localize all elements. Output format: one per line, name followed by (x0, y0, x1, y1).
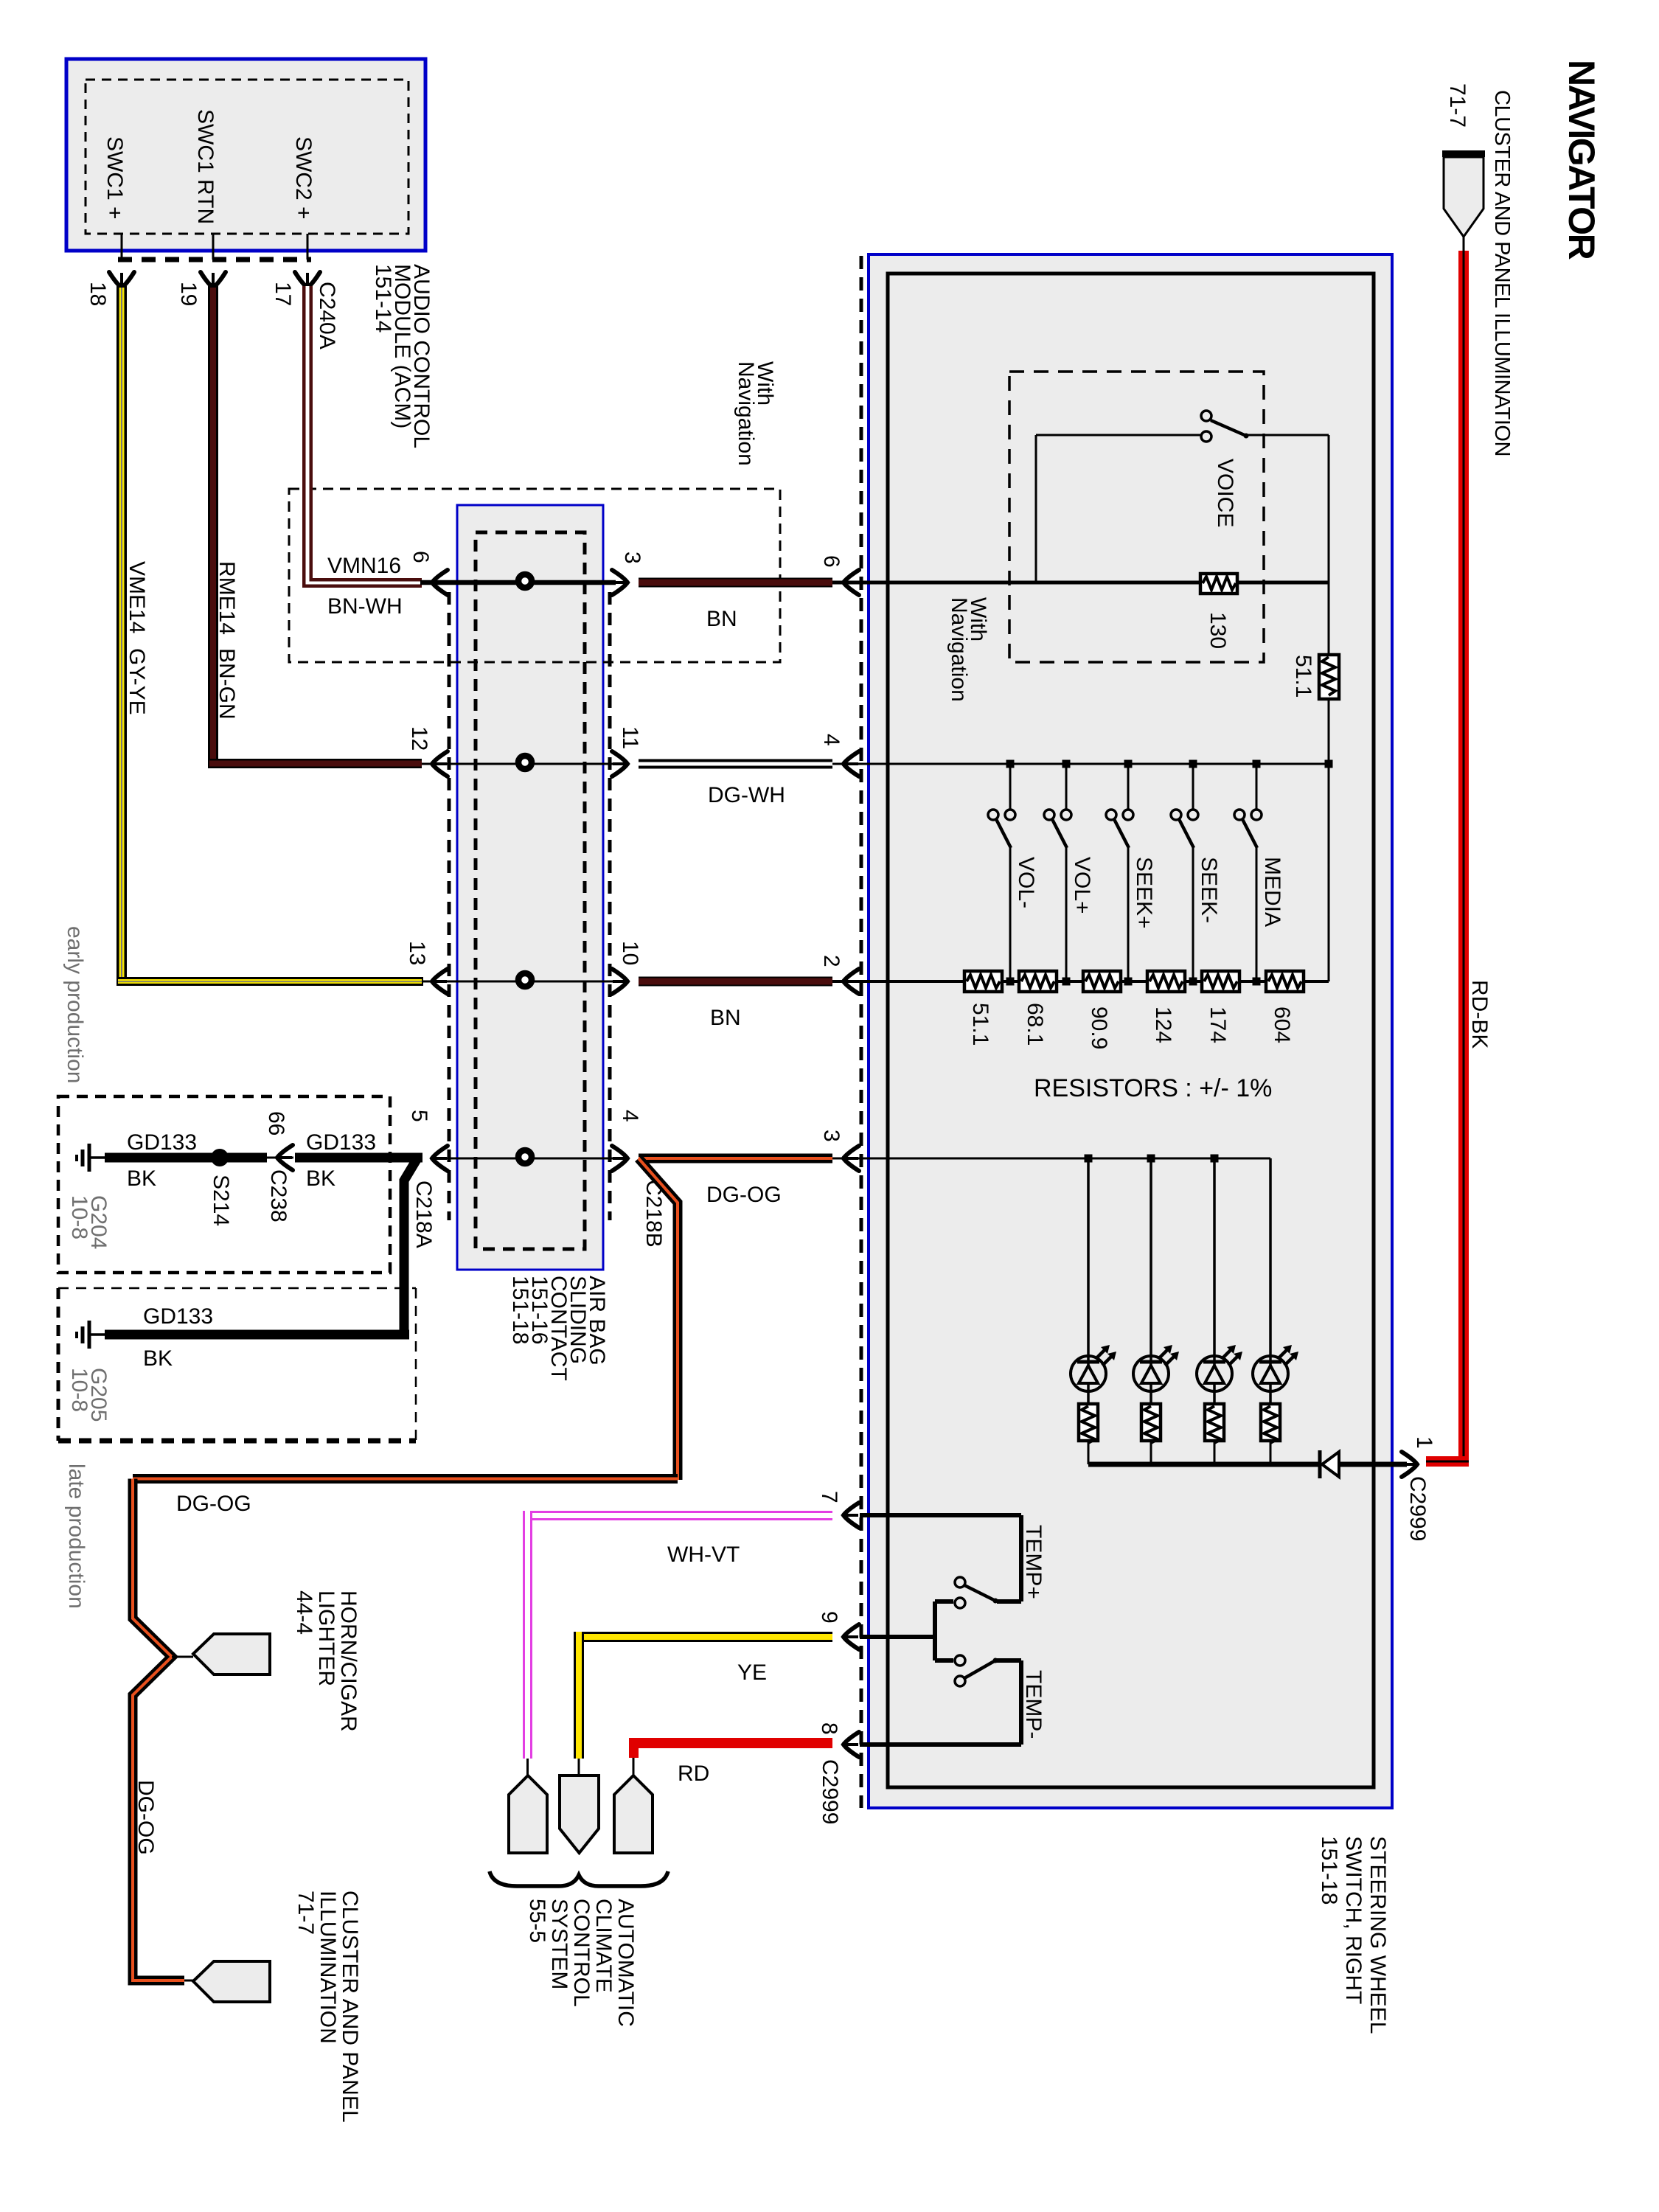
steering wheel switch box (869, 254, 1392, 1808)
svg-text:GD133: GD133 (306, 1130, 376, 1155)
wire GD133 BK (to S214) (105, 1153, 214, 1163)
arrow pin 12 C218A (432, 751, 448, 776)
VOICE branch (1035, 435, 1037, 582)
LED branch junction dots (1085, 1155, 1093, 1163)
arrow pin 10 C218B (612, 969, 627, 994)
ground G204 (77, 1144, 108, 1172)
connector pentagon (cluster illumination feed) (1442, 150, 1485, 251)
connector C218A dashed line (448, 592, 451, 1220)
svg-text:Navigation: Navigation (947, 597, 971, 702)
resistor 124 (1147, 971, 1185, 992)
svg-text:AUTOMATIC: AUTOMATIC (613, 1899, 638, 2027)
svg-text:12: 12 (407, 726, 431, 751)
svg-text:9: 9 (817, 1611, 841, 1624)
diode D1 (1320, 1450, 1339, 1478)
connector pentagon HORN/CIGAR LIGHTER (193, 1634, 270, 1674)
LED 1 branch (1071, 1158, 1116, 1464)
connector arrow pin 18 (109, 272, 134, 288)
svg-text:4: 4 (618, 1110, 642, 1122)
svg-text:SWC1 +: SWC1 + (102, 136, 127, 220)
svg-text:CONTROL: CONTROL (569, 1899, 594, 2007)
svg-text:BN-GN: BN-GN (215, 648, 239, 720)
arrow C2999 pin 3 (844, 1146, 859, 1171)
svg-text:SEEK-: SEEK- (1197, 857, 1221, 923)
svg-text:C240A: C240A (315, 282, 339, 349)
arrow C2999 pin 2 (844, 969, 859, 994)
arrow pin 11 C218B (612, 751, 627, 776)
svg-text:SWITCH, RIGHT: SWITCH, RIGHT (1341, 1836, 1366, 2004)
svg-text:68.1: 68.1 (1023, 1003, 1047, 1046)
svg-text:CLIMATE: CLIMATE (591, 1899, 616, 1993)
svg-text:10: 10 (618, 941, 642, 965)
svg-text:151-14: 151-14 (371, 264, 395, 333)
resistor 90.9 (1083, 971, 1121, 992)
row 2: wire through sliding contact (pin12-pin11) (422, 763, 616, 765)
svg-text:DG-OG: DG-OG (176, 1492, 251, 1516)
svg-text:3: 3 (819, 1130, 844, 1142)
sliding contact ring row3 (518, 973, 532, 987)
wire WH-VT (pin 7) (523, 1511, 832, 1775)
connector pentagon CLUSTER AND PANEL ILLUMINATION (bottom) (193, 1961, 270, 2002)
common wire from pin 9 (860, 1635, 935, 1639)
arrow C2999 pin 6 (844, 570, 859, 595)
wire pin stubs from ACM (121, 234, 123, 260)
wire DG-WH row2 (639, 759, 832, 769)
switch SEEK- (1171, 760, 1198, 986)
TEMP+ wire from pin 7 (860, 1513, 1021, 1517)
resistor 68.1 (1019, 971, 1057, 992)
brace (climate control connectors) (490, 1871, 668, 1886)
svg-text:10-8: 10-8 (67, 1368, 91, 1412)
ground G205 (77, 1321, 108, 1349)
splice S214 (211, 1149, 229, 1166)
svg-text:13: 13 (405, 941, 429, 965)
wire row1 into steering box (832, 581, 1036, 585)
arrow pin 13 C218A (432, 969, 448, 994)
wire S214 to C238 (227, 1153, 267, 1163)
svg-text:151-18: 151-18 (508, 1276, 532, 1344)
switch VOL- (988, 760, 1015, 986)
svg-text:TEMP+: TEMP+ (1021, 1525, 1046, 1599)
wire GD133 BK (C238 to C218A pin 5) (295, 1153, 422, 1163)
row 1: wire through sliding contact (pin6-pin3) (420, 580, 616, 585)
svg-text:SWC1 RTN: SWC1 RTN (193, 109, 218, 224)
svg-text:VOICE: VOICE (1213, 459, 1237, 527)
resistor 174 (1202, 971, 1239, 992)
svg-text:55-5: 55-5 (525, 1899, 549, 1943)
arrow pin 66 C238 (267, 1157, 293, 1159)
svg-text:VOL-: VOL- (1014, 857, 1038, 908)
svg-text:C238: C238 (266, 1169, 291, 1222)
svg-text:51.1: 51.1 (968, 1003, 992, 1046)
row 4: wire through sliding contact (pin5-pin4) (441, 1158, 616, 1160)
LED 4 branch (1253, 1158, 1298, 1464)
svg-text:66: 66 (264, 1111, 288, 1135)
svg-text:17: 17 (271, 282, 295, 306)
wire row3 into steering box (832, 980, 964, 983)
connector C218B dashed line (608, 592, 612, 1220)
With Navigation dashed box (left) (289, 489, 780, 662)
svg-text:VMN16: VMN16 (327, 554, 401, 578)
svg-text:4: 4 (819, 734, 844, 746)
sliding contact ring row1 (518, 574, 532, 588)
LED 2 branch (1133, 1158, 1179, 1464)
resistor 130 (1200, 574, 1237, 594)
resistor chain row (1002, 980, 1019, 983)
svg-text:BN-WH: BN-WH (327, 594, 403, 619)
row 3: wire through sliding contact (pin13-pin10) (423, 981, 616, 983)
svg-text:DG-OG: DG-OG (133, 1780, 158, 1855)
wire DG-OG distribution (late production) (133, 1158, 678, 1980)
With Navigation dashed box (right) (1009, 372, 1264, 662)
svg-text:LIGHTER: LIGHTER (314, 1590, 338, 1686)
svg-text:18: 18 (86, 282, 110, 306)
LED 3 branch (1197, 1158, 1242, 1464)
arrow C2999 pin 9 (844, 1624, 859, 1649)
svg-text:51.1: 51.1 (1291, 655, 1315, 698)
wire VME14 GY-YE (pin 18 to pin 13) (116, 286, 423, 986)
sliding contact ring row4 (518, 1150, 532, 1164)
svg-text:NAVIGATOR: NAVIGATOR (1561, 60, 1602, 260)
svg-text:174: 174 (1206, 1006, 1230, 1043)
svg-text:1: 1 (1412, 1436, 1436, 1449)
wire BN row3 (639, 977, 832, 987)
connector pentagon YE (climate control) (560, 1775, 599, 1853)
svg-text:C2999: C2999 (1405, 1476, 1430, 1541)
svg-text:GD133: GD133 (127, 1130, 197, 1155)
svg-text:WH-VT: WH-VT (667, 1543, 740, 1567)
arrow pin 6 C218A (432, 570, 448, 595)
svg-text:ILLUMINATION: ILLUMINATION (316, 1891, 340, 2044)
svg-text:BN: BN (706, 607, 737, 631)
arrow pin 4 C218B (612, 1146, 627, 1171)
svg-text:late production: late production (64, 1464, 88, 1609)
svg-text:90.9: 90.9 (1087, 1006, 1111, 1049)
arrow pin 3 C218B (612, 570, 627, 595)
ACM box (AUDIO CONTROL MODULE) (66, 59, 425, 251)
ground box G205 (late production) (58, 1288, 416, 1441)
svg-text:604: 604 (1270, 1006, 1294, 1043)
arrow C2999 pin 1 (1402, 1452, 1417, 1477)
wire row2 into steering box (832, 763, 1329, 765)
junction dot (1325, 760, 1333, 768)
svg-text:151-18: 151-18 (1317, 1836, 1341, 1905)
svg-text:DG-OG: DG-OG (706, 1183, 782, 1207)
svg-text:71-7: 71-7 (293, 1891, 318, 1935)
svg-text:SEEK+: SEEK+ (1132, 857, 1156, 929)
wire DG-OG row4 (639, 1154, 832, 1164)
switch TEMP- (955, 1655, 998, 1686)
svg-text:DG-WH: DG-WH (708, 783, 785, 807)
svg-text:19: 19 (176, 282, 201, 306)
wire RD (pin 8) (629, 1738, 832, 1775)
connector arrow pin 19 (201, 272, 226, 288)
svg-text:YE: YE (737, 1660, 767, 1685)
LED return bus (1088, 1462, 1318, 1467)
svg-text:11: 11 (618, 726, 642, 749)
svg-text:GY-YE: GY-YE (125, 648, 149, 715)
svg-text:GD133: GD133 (143, 1304, 213, 1329)
svg-text:SWC2 +: SWC2 + (291, 136, 316, 220)
svg-text:BK: BK (127, 1166, 156, 1191)
svg-text:6: 6 (408, 551, 433, 563)
svg-text:RME14: RME14 (215, 561, 239, 635)
svg-text:C2999: C2999 (818, 1759, 842, 1824)
switch VOICE (1201, 411, 1249, 442)
wire VMN16 BN-WH (pin 17 to pin 6) (302, 286, 422, 588)
svg-text:BK: BK (306, 1166, 335, 1191)
svg-text:7: 7 (817, 1491, 841, 1503)
arrow C2999 pin 8 (844, 1732, 859, 1757)
wire RD-BK (cluster illumination to C2999 pin 1) (1426, 251, 1469, 1467)
AIR BAG SLIDING CONTACT box (457, 505, 603, 1270)
svg-text:S214: S214 (209, 1175, 233, 1226)
wire BN row1 (C218B to C2999 pin6) (639, 578, 832, 588)
svg-text:STEERING WHEEL: STEERING WHEEL (1366, 1836, 1390, 2034)
svg-text:71-7: 71-7 (1445, 83, 1470, 128)
svg-text:3: 3 (620, 552, 644, 564)
svg-text:6: 6 (819, 555, 844, 568)
svg-text:TEMP-: TEMP- (1021, 1670, 1046, 1739)
connector C2999 dashed line (860, 256, 863, 1808)
svg-text:C218A: C218A (411, 1180, 436, 1248)
svg-text:VME14: VME14 (125, 561, 149, 633)
arrow C2999 pin 4 (844, 751, 859, 776)
TEMP- wire to pin 8 (995, 1658, 1021, 1663)
wire GD133 BK (G205) (105, 1330, 409, 1340)
svg-text:124: 124 (1151, 1006, 1175, 1043)
sliding contact ring row2 (518, 756, 532, 769)
svg-text:BN: BN (710, 1006, 741, 1030)
svg-text:5: 5 (407, 1110, 431, 1122)
svg-text:10-8: 10-8 (67, 1195, 91, 1239)
svg-text:CLUSTER AND PANEL ILLUMINATION: CLUSTER AND PANEL ILLUMINATION (1490, 90, 1514, 456)
svg-text:HORN/CIGAR: HORN/CIGAR (336, 1590, 361, 1732)
svg-text:SYSTEM: SYSTEM (547, 1899, 571, 1989)
arrow C2999 pin 7 (844, 1503, 859, 1528)
svg-text:early production: early production (63, 926, 87, 1083)
wire RME14 BN-GN (pin 19 to pin 12) (208, 286, 422, 768)
svg-text:RD-BK: RD-BK (1467, 980, 1492, 1048)
svg-text:Navigation: Navigation (734, 361, 758, 466)
switch TEMP+ (955, 1577, 998, 1608)
svg-text:BK: BK (143, 1346, 173, 1371)
svg-text:CLUSTER AND PANEL: CLUSTER AND PANEL (338, 1891, 362, 2123)
connector pentagon WH-VT (climate control) (509, 1775, 547, 1853)
svg-text:RD: RD (678, 1761, 709, 1786)
svg-text:44-4: 44-4 (292, 1590, 316, 1635)
wire late production drop (404, 1158, 417, 1335)
svg-text:8: 8 (817, 1722, 841, 1735)
resistor 604 (1266, 971, 1304, 992)
arrow pin 5 C218A (432, 1146, 448, 1171)
switch MEDIA (1234, 760, 1262, 986)
wire YE (pin 9) (574, 1632, 832, 1775)
svg-text:MEDIA: MEDIA (1260, 857, 1284, 927)
svg-text:VOL+: VOL+ (1070, 857, 1094, 914)
connector arrow pin 17 (295, 272, 320, 288)
wire row4 into steering box (LED bus) (832, 1158, 1270, 1160)
svg-text:130: 130 (1206, 612, 1230, 649)
resistor 51.1 (964, 971, 1002, 992)
connector C240A dashed line (118, 257, 311, 262)
switch SEEK+ (1106, 760, 1133, 986)
wire row1 through voice area (1036, 581, 1329, 585)
switch VOL+ (1044, 760, 1071, 986)
connector pentagon RD (climate control) (614, 1775, 653, 1853)
ground box G204 (early production) (58, 1096, 390, 1273)
resistor 51.1 (voice) (1319, 655, 1339, 699)
svg-text:RESISTORS : +/- 1%: RESISTORS : +/- 1% (1034, 1074, 1272, 1102)
svg-text:2: 2 (819, 955, 844, 967)
